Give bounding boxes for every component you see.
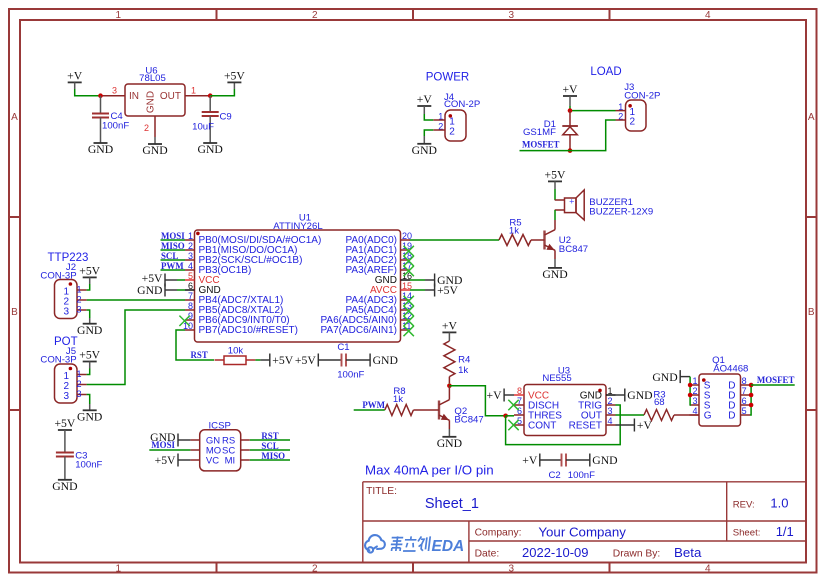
svg-text:GND: GND <box>52 480 77 493</box>
svg-text:6: 6 <box>742 396 747 406</box>
svg-text:AO4468: AO4468 <box>713 364 748 375</box>
svg-text:1: 1 <box>692 376 697 386</box>
svg-text:1: 1 <box>191 86 196 96</box>
svg-text:GND: GND <box>137 284 162 297</box>
svg-text:3: 3 <box>64 391 70 402</box>
svg-text:GND: GND <box>592 454 617 467</box>
svg-text:4: 4 <box>692 406 697 416</box>
svg-text:GND: GND <box>373 354 398 367</box>
svg-text:4: 4 <box>705 10 711 21</box>
svg-text:Company:: Company: <box>475 528 522 539</box>
svg-text:+5V: +5V <box>155 454 176 467</box>
svg-text:2: 2 <box>188 241 193 251</box>
svg-text:REV:: REV: <box>733 500 755 511</box>
svg-text:+5V: +5V <box>545 168 566 181</box>
svg-text:VC: VC <box>206 456 219 467</box>
svg-text:2: 2 <box>312 563 318 574</box>
svg-text:TITLE:: TITLE: <box>366 486 397 497</box>
svg-text:+V: +V <box>417 93 433 106</box>
svg-text:RST: RST <box>191 350 208 360</box>
svg-text:MOSFET: MOSFET <box>522 140 560 150</box>
svg-text:1/1: 1/1 <box>776 524 794 539</box>
svg-text:GND: GND <box>652 371 677 384</box>
svg-text:4: 4 <box>608 416 613 426</box>
svg-text:100nF: 100nF <box>102 121 129 132</box>
svg-text:GND: GND <box>627 389 652 402</box>
svg-text:2: 2 <box>449 127 455 138</box>
svg-text:+5V: +5V <box>224 69 245 82</box>
svg-text:4: 4 <box>188 261 193 271</box>
svg-text:3: 3 <box>64 307 70 318</box>
svg-text:GND: GND <box>198 143 223 156</box>
svg-text:1k: 1k <box>458 365 468 376</box>
svg-text:Your Company: Your Company <box>538 525 626 540</box>
svg-text:+5V: +5V <box>79 349 100 362</box>
svg-text:+V: +V <box>487 389 503 402</box>
svg-text:G: G <box>704 411 712 422</box>
svg-text:+5V: +5V <box>272 354 293 367</box>
svg-text:1.0: 1.0 <box>770 496 788 511</box>
svg-text:LOAD: LOAD <box>590 66 621 78</box>
svg-text:+5V: +5V <box>54 417 75 430</box>
svg-text:8: 8 <box>188 301 193 311</box>
svg-text:MISO: MISO <box>161 241 185 251</box>
svg-text:1: 1 <box>188 231 193 241</box>
svg-text:GND: GND <box>542 268 567 281</box>
svg-text:D: D <box>728 411 735 422</box>
svg-text:GND: GND <box>412 144 437 157</box>
svg-text:A: A <box>808 112 815 123</box>
svg-text:Sheet_1: Sheet_1 <box>425 496 479 512</box>
svg-text:GND: GND <box>142 144 167 157</box>
svg-text:+5V: +5V <box>295 354 316 367</box>
svg-text:5: 5 <box>188 271 193 281</box>
svg-text:PWM: PWM <box>362 400 385 410</box>
svg-text:Sheet:: Sheet: <box>733 528 761 539</box>
svg-text:3: 3 <box>608 406 613 416</box>
svg-text:CON-2P: CON-2P <box>444 99 480 110</box>
svg-text:EDA: EDA <box>432 538 465 555</box>
svg-text:GND: GND <box>437 437 462 450</box>
svg-text:4: 4 <box>705 563 711 574</box>
svg-text:Drawn By:: Drawn By: <box>613 549 661 560</box>
svg-text:5: 5 <box>742 406 747 416</box>
svg-text:MOSI: MOSI <box>151 440 175 450</box>
svg-text:3: 3 <box>692 396 697 406</box>
svg-text:+V: +V <box>522 454 538 467</box>
svg-text:2: 2 <box>630 117 636 128</box>
svg-text:1: 1 <box>116 563 122 574</box>
svg-text:RESET: RESET <box>569 421 602 432</box>
svg-text:MI: MI <box>225 456 236 467</box>
svg-text:3: 3 <box>509 10 515 21</box>
svg-text:C1: C1 <box>337 342 349 353</box>
svg-text:Beta: Beta <box>674 545 702 560</box>
svg-text:1: 1 <box>116 10 122 21</box>
svg-text:Date:: Date: <box>475 549 500 560</box>
svg-text:SCL: SCL <box>261 441 278 451</box>
svg-text:20: 20 <box>402 231 412 241</box>
svg-text:6: 6 <box>517 406 522 416</box>
svg-text:+V: +V <box>637 419 653 432</box>
svg-text:BC847: BC847 <box>559 244 588 255</box>
svg-text:IN: IN <box>129 91 139 102</box>
svg-text:100nF: 100nF <box>568 470 595 481</box>
svg-text:2022-10-09: 2022-10-09 <box>522 545 589 560</box>
svg-text:2: 2 <box>77 379 82 389</box>
svg-text:OUT: OUT <box>160 91 181 102</box>
svg-text:B: B <box>808 307 815 318</box>
svg-text:C9: C9 <box>220 112 232 123</box>
svg-text:8: 8 <box>517 386 522 396</box>
svg-text:2: 2 <box>144 123 149 133</box>
svg-text:3: 3 <box>112 86 117 96</box>
svg-text:GS1MF: GS1MF <box>523 127 556 138</box>
svg-text:100nF: 100nF <box>337 370 364 381</box>
svg-text:Max 40mA per I/O pin: Max 40mA per I/O pin <box>365 463 494 478</box>
svg-text:MISO: MISO <box>261 451 285 461</box>
svg-text:3: 3 <box>77 389 82 399</box>
svg-text:NE555: NE555 <box>542 373 571 384</box>
svg-text:+5V: +5V <box>79 264 100 277</box>
svg-text:2: 2 <box>77 294 82 304</box>
svg-text:+5V: +5V <box>437 284 458 297</box>
svg-text:GND: GND <box>88 143 113 156</box>
svg-text:78L05: 78L05 <box>139 73 166 84</box>
svg-text:10k: 10k <box>228 346 244 357</box>
svg-text:MOSI: MOSI <box>161 231 185 241</box>
svg-text:SCL: SCL <box>161 251 178 261</box>
svg-text:6: 6 <box>188 281 193 291</box>
svg-text:PA7(ADC6/AIN1): PA7(ADC6/AIN1) <box>320 325 397 336</box>
svg-text:7: 7 <box>742 386 747 396</box>
svg-text:10uF: 10uF <box>192 121 214 132</box>
svg-text:8: 8 <box>742 376 747 386</box>
svg-text:3: 3 <box>77 304 82 314</box>
svg-text:3: 3 <box>509 563 515 574</box>
svg-text:1k: 1k <box>509 225 519 236</box>
svg-text:GND: GND <box>77 324 102 337</box>
svg-text:68: 68 <box>654 397 665 408</box>
svg-text:100nF: 100nF <box>75 459 102 470</box>
svg-text:7: 7 <box>188 291 193 301</box>
svg-text:3: 3 <box>188 251 193 261</box>
svg-text:C2: C2 <box>548 470 560 481</box>
svg-text:+V: +V <box>562 83 578 96</box>
svg-text:2: 2 <box>608 396 613 406</box>
svg-text:1k: 1k <box>393 394 403 405</box>
svg-text:CONT: CONT <box>528 421 556 432</box>
svg-text:PWM: PWM <box>161 261 184 271</box>
svg-text:BC847: BC847 <box>454 415 483 426</box>
svg-text:1: 1 <box>608 386 613 396</box>
svg-text:GND: GND <box>146 91 157 113</box>
svg-text:2: 2 <box>312 10 318 21</box>
svg-text:POWER: POWER <box>426 72 469 84</box>
svg-text:BUZZER-12X9: BUZZER-12X9 <box>589 206 653 217</box>
svg-text:+V: +V <box>67 69 83 82</box>
svg-text:PB7(ADC10/#RESET): PB7(ADC10/#RESET) <box>199 325 298 336</box>
svg-text:RST: RST <box>261 431 278 441</box>
svg-text:1: 1 <box>77 284 82 294</box>
svg-text:1: 1 <box>77 369 82 379</box>
svg-text:GND: GND <box>77 411 102 424</box>
svg-text:B: B <box>11 307 18 318</box>
svg-text:A: A <box>11 112 18 123</box>
svg-text:+: + <box>569 196 574 206</box>
svg-text:MOSFET: MOSFET <box>757 375 795 385</box>
svg-text:+V: +V <box>442 319 458 332</box>
svg-text:2: 2 <box>692 386 697 396</box>
